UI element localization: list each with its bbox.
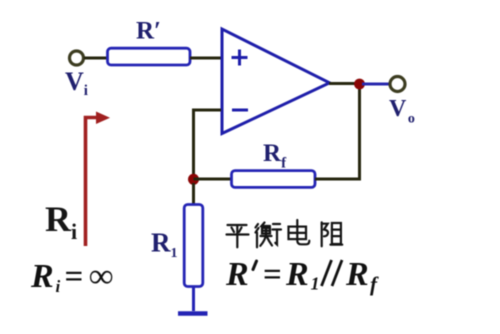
resistor R1: [184, 205, 203, 287]
wire node to Vo terminal: [362, 83, 389, 86]
wire op-amp output: [329, 82, 360, 85]
wire R' to op-amp: [190, 57, 221, 60]
svg-text:R: R: [225, 256, 249, 293]
wire node A to R1: [192, 183, 195, 205]
output node dot: [354, 79, 365, 90]
char dian: [289, 220, 310, 244]
input terminal Vi: [70, 51, 84, 65]
parallel slashes // in formula: [322, 260, 343, 286]
svg-text:R1: R1: [151, 228, 178, 262]
Ri input-resistance arrow: [86, 112, 111, 247]
wire R1 to ground: [192, 287, 195, 312]
svg-text:=: =: [263, 257, 282, 293]
prime tick of R' in formula: [253, 261, 257, 270]
char zu: [322, 222, 343, 246]
svg-text:Vi: Vi: [65, 67, 88, 99]
svg-text:R: R: [285, 256, 309, 293]
char ping: [227, 225, 249, 247]
wire inverting input: [194, 110, 222, 176]
svg-text:R: R: [345, 256, 369, 293]
wire Vi to R': [84, 57, 108, 60]
wire Rf to output node: [315, 84, 360, 179]
svg-text:∞: ∞: [89, 258, 113, 295]
op-amp U1: [222, 29, 330, 134]
text balance-resistor (Chinese): [227, 220, 343, 247]
ground: [178, 311, 208, 316]
char heng: [256, 223, 282, 248]
wire node A to Rf: [194, 178, 232, 181]
svg-text:Vo: Vo: [389, 96, 415, 127]
svg-text:i: i: [56, 277, 61, 296]
op-amp - input marking: [232, 109, 248, 112]
svg-text:R: R: [30, 258, 54, 295]
output terminal Vo: [390, 77, 405, 92]
resistor R': [108, 48, 191, 65]
op-amp + input marking: [232, 50, 248, 66]
svg-text:f: f: [370, 272, 379, 296]
svg-text:Rf: Rf: [263, 140, 287, 172]
svg-text:=: =: [65, 259, 84, 295]
formula Ri = infinity: [30, 258, 113, 296]
svg-text:R′: R′: [136, 18, 161, 45]
formula R' = R1 // Rf: [225, 256, 379, 296]
node A junction dot: [188, 174, 199, 185]
svg-text:Ri: Ri: [45, 199, 77, 244]
resistor Rf: [232, 171, 316, 188]
svg-text:1: 1: [311, 274, 320, 294]
